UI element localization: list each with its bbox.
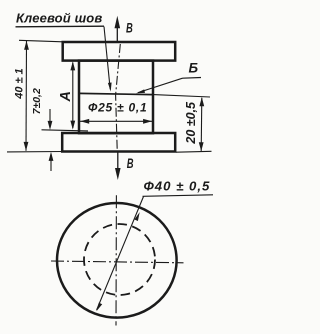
Ф40 arrowhead upper [134, 212, 139, 221]
leader arrowhead at seam [108, 83, 112, 92]
20-dim arrowhead top [199, 97, 204, 106]
Ф25 arrowhead left [80, 119, 89, 124]
7-dim arrowhead down [48, 121, 53, 130]
vertical centerline of circle [115, 195, 117, 325]
outer circle of bottom view [57, 203, 177, 318]
hidden (dashed) bore circle [84, 224, 155, 295]
dimension 40±1: dimension line [25, 41, 28, 151]
underline for Б [183, 77, 202, 80]
top flange outline [63, 42, 176, 61]
dimension 40±1: bottom extension line [7, 151, 62, 153]
Ф40 dimension line (diameter leader) [97, 197, 144, 311]
svg-text:Клеевой шов: Клеевой шов [16, 10, 102, 25]
bottom flange outline [62, 133, 175, 152]
svg-text:40 ± 1: 40 ± 1 [14, 68, 26, 100]
svg-text:Б: Б [189, 60, 199, 75]
dimension 7±0,2: upper arrow line [49, 109, 51, 128]
7-dim lower arrow line [50, 154, 52, 171]
7-dim arrowhead up [49, 152, 54, 161]
A-dim arrowhead top [70, 61, 75, 70]
leader line to glue seam [104, 27, 110, 90]
Ф40 underline [143, 195, 214, 197]
svg-text:В: В [127, 155, 134, 171]
section arrow B bottom [117, 152, 119, 170]
seam extension line to right [153, 95, 210, 97]
Ф40 arrowhead lower [96, 303, 102, 312]
glue seam line across body [79, 93, 153, 94]
7-dim extension line (flange top) [42, 130, 89, 131]
20-dim dimension line [200, 98, 203, 151]
Ф25 dimension line [80, 120, 152, 122]
dimension A: dimension line [72, 63, 74, 128]
Ф25 arrowhead right [143, 119, 152, 124]
centerline front view [116, 44, 121, 150]
svg-text:Ф25 ± 0,1: Ф25 ± 0,1 [88, 101, 147, 115]
svg-text:Ф40 ± 0,5: Ф40 ± 0,5 [144, 179, 211, 194]
20-dim arrowhead bottom [199, 142, 204, 151]
dimension 20±0,5: bottom extension line [176, 150, 212, 153]
svg-text:20 ±0,5: 20 ±0,5 [184, 101, 198, 145]
svg-text:7±0,2: 7±0,2 [31, 88, 43, 114]
A-dim arrowhead bottom [70, 121, 75, 130]
40-dim arrowhead bottom [24, 142, 29, 151]
body outline [79, 61, 153, 134]
leader underline for "Клеевой шов" [16, 25, 105, 28]
horizontal centerline of circle [51, 261, 184, 263]
Б leader arrowhead [136, 89, 145, 93]
section arrow B top [116, 26, 118, 42]
40-dim arrowhead top [24, 41, 29, 50]
dimension 40±1: top extension line [19, 40, 63, 42]
leader line from Б to seam [138, 78, 183, 92]
svg-text:А: А [58, 91, 74, 102]
svg-text:В: В [126, 20, 133, 36]
